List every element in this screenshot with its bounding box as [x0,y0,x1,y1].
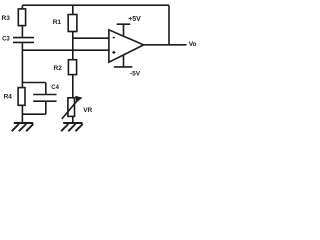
wire plus input line [22,49,109,51]
ground below VR [61,123,83,131]
wire C3 down to R4 [21,42,23,87]
wire R1 to R2 [72,32,74,60]
svg-text:R4: R4 [4,94,13,101]
wire R2 to VR [72,75,74,98]
wire output [144,44,187,46]
wire R3 to C3 [21,26,23,37]
svg-text:Vo: Vo [189,41,197,48]
wire C4 top branch [22,83,45,95]
wire VR to ground [72,116,74,123]
VR arrowhead [75,96,83,103]
wire C4 bottom [22,101,45,114]
resistor R4 [18,88,25,106]
op-amp U1 [109,30,144,62]
wire top feedback rail [22,4,169,6]
svg-text:R3: R3 [2,15,11,22]
svg-text:C4: C4 [51,85,59,91]
ground below R4 [12,123,34,131]
resistor R3 [18,9,25,26]
resistor R1 [68,15,77,32]
wire feedback vertical drop [168,5,170,45]
resistor R2 [68,60,76,75]
svg-text:VR: VR [83,107,92,114]
svg-text:-5V: -5V [130,71,141,78]
svg-text:+5V: +5V [128,16,141,23]
variable resistor VR [68,98,75,117]
wire +5V supply [117,24,131,37]
wire -5V supply [114,54,132,67]
op-amp plus sign [112,51,115,54]
svg-text:C3: C3 [2,37,10,43]
svg-text:R1: R1 [53,19,62,26]
op-amp minus sign [113,37,115,39]
svg-text:R2: R2 [54,65,63,72]
capacitor C3 [13,38,34,43]
wire R3 top stub [21,5,23,9]
capacitor C4 [33,95,56,102]
wire minus input branch [73,37,109,39]
wire R1 top stub [72,5,74,14]
wire R4 to ground [21,105,23,123]
